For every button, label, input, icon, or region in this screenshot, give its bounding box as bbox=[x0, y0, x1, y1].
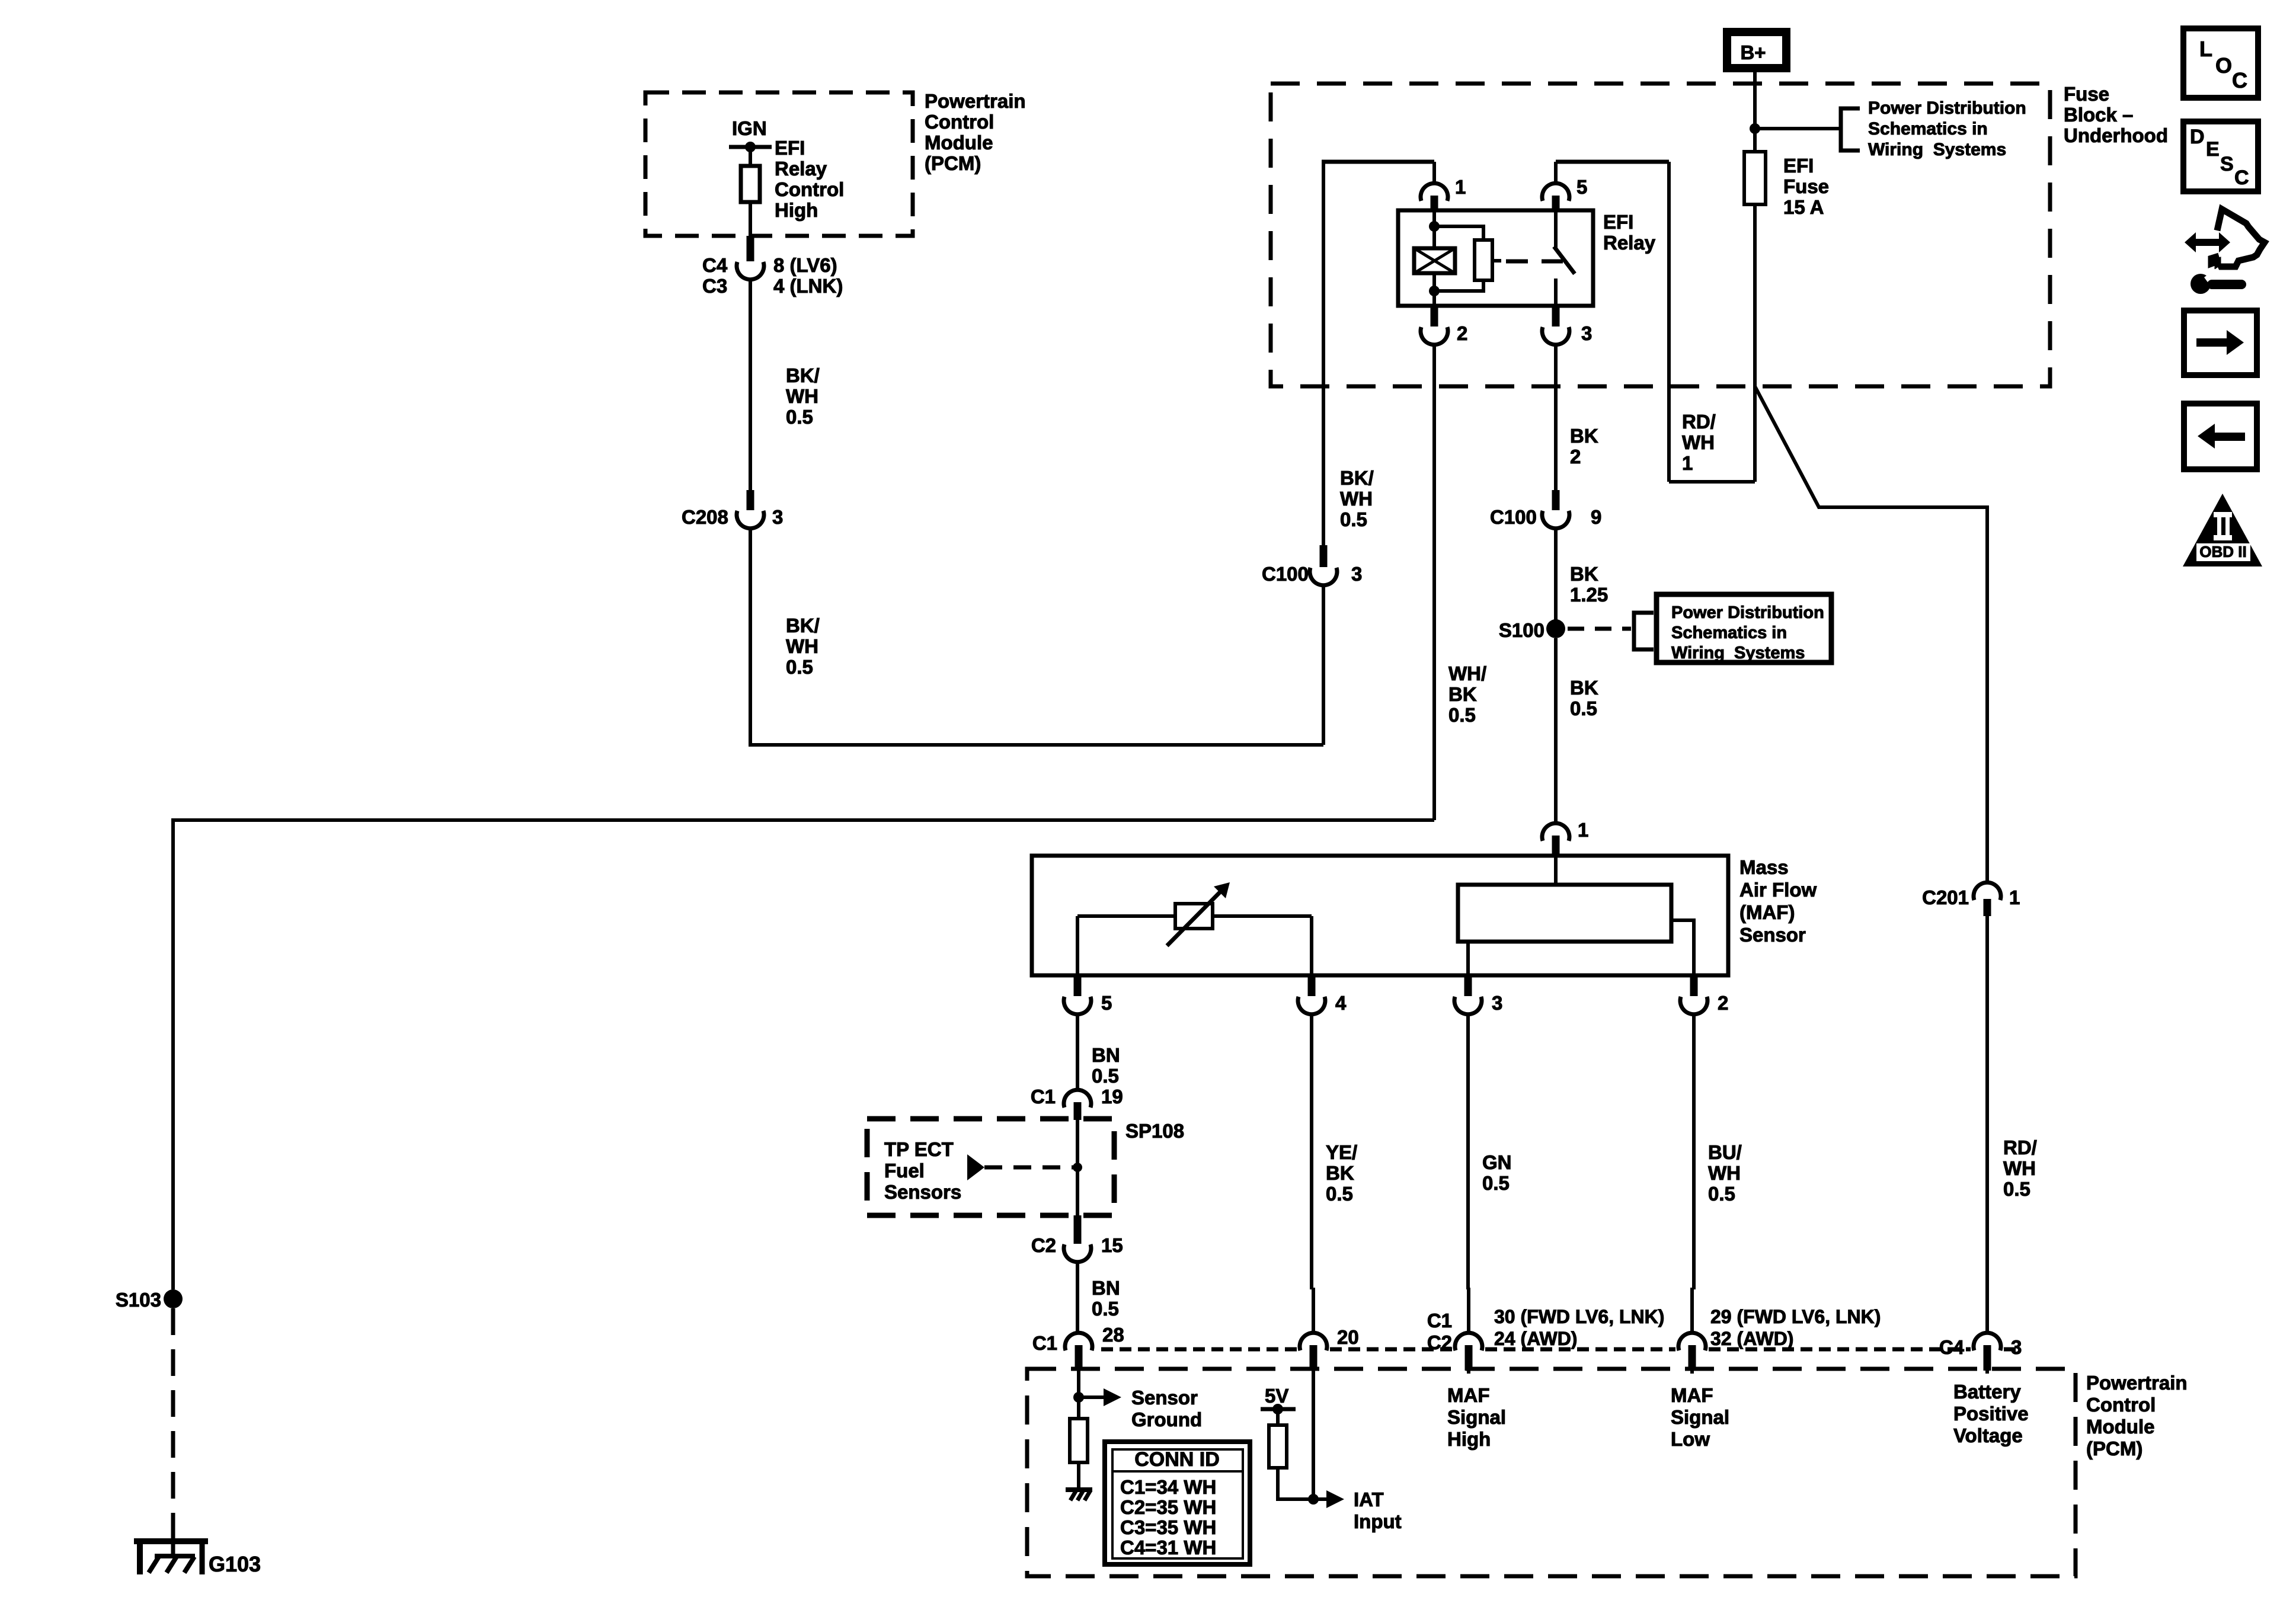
terminal B+ battery positive bbox=[1727, 32, 1786, 68]
wire B+ down to fuse bbox=[1753, 72, 1757, 152]
module box: TP ECT Fuel Sensors splice pack, dashed bbox=[867, 1119, 1114, 1215]
svg-text:BU/: BU/ bbox=[1708, 1141, 1742, 1163]
svg-text:Battery: Battery bbox=[1953, 1381, 2021, 1403]
resistor inside relay bbox=[1475, 240, 1492, 280]
wire riser from C100-3 up to top bus bbox=[1322, 162, 1325, 558]
wire through SP108 bbox=[1076, 1120, 1079, 1215]
connector C201 pin 1 bbox=[1974, 882, 2001, 900]
relay switch blade bbox=[1554, 210, 1558, 248]
connector MAF pin 3 bbox=[1464, 975, 1472, 996]
svg-text:Sensor: Sensor bbox=[1131, 1387, 1198, 1409]
wire diagonal RD/WH 0.5 to right column bbox=[1755, 386, 1987, 882]
svg-text:S100: S100 bbox=[1499, 619, 1544, 641]
svg-text:Fuel: Fuel bbox=[884, 1160, 925, 1182]
wire fuse down through box edge bbox=[1753, 204, 1757, 482]
svg-text:C3: C3 bbox=[702, 275, 727, 297]
svg-text:RD/: RD/ bbox=[2003, 1137, 2037, 1158]
svg-text:C1: C1 bbox=[1031, 1086, 1056, 1108]
svg-text:OBD II: OBD II bbox=[2199, 543, 2246, 561]
svg-text:30 (FWD LV6, LNK): 30 (FWD LV6, LNK) bbox=[1494, 1306, 1664, 1327]
svg-text:Module: Module bbox=[925, 132, 993, 153]
wire coil feed inside relay bbox=[1432, 210, 1436, 248]
svg-text:C3=35 WH: C3=35 WH bbox=[1120, 1516, 1216, 1538]
svg-text:3: 3 bbox=[1351, 563, 1362, 585]
svg-text:Underhood: Underhood bbox=[2064, 124, 2168, 146]
component box: Mass Air Flow (MAF) Sensor bbox=[1032, 856, 1728, 975]
svg-text:8 (LV6): 8 (LV6) bbox=[773, 254, 837, 276]
svg-text:C2=35 WH: C2=35 WH bbox=[1120, 1496, 1216, 1518]
wire branch to power distribution reference bbox=[1755, 127, 1841, 130]
svg-text:C1=34 WH: C1=34 WH bbox=[1120, 1476, 1216, 1498]
connector relay pin 5 bbox=[1554, 162, 1558, 183]
svg-text:High: High bbox=[775, 199, 818, 221]
svg-text:C1: C1 bbox=[1427, 1310, 1452, 1331]
connector row line bbox=[1330, 1347, 1452, 1352]
svg-text:BK: BK bbox=[1570, 425, 1598, 447]
reference bracket S100 bbox=[1634, 613, 1654, 649]
ground G103 symbol bbox=[134, 1538, 208, 1544]
svg-text:Low: Low bbox=[1671, 1428, 1710, 1450]
wire heater bottom to pin 3 bbox=[1466, 942, 1470, 975]
svg-text:BK/: BK/ bbox=[786, 364, 820, 386]
svg-text:Positive: Positive bbox=[1953, 1403, 2029, 1425]
svg-text:5V: 5V bbox=[1265, 1385, 1288, 1407]
wire sensor ground inside PCM bbox=[1077, 1371, 1080, 1419]
svg-text:C: C bbox=[2234, 167, 2249, 189]
icon forward arrow box bbox=[2184, 311, 2257, 375]
svg-text:WH: WH bbox=[786, 385, 818, 407]
svg-text:3: 3 bbox=[772, 506, 783, 528]
connector relay pin 3 bbox=[1552, 306, 1560, 327]
svg-text:Power Distribution: Power Distribution bbox=[1868, 98, 2026, 118]
svg-text:High: High bbox=[1447, 1428, 1491, 1450]
svg-text:BK/: BK/ bbox=[786, 614, 820, 636]
connector pin 29/32 bbox=[1678, 1333, 1706, 1350]
svg-text:0.5: 0.5 bbox=[1340, 508, 1367, 530]
svg-text:E: E bbox=[2206, 138, 2220, 161]
svg-text:0.5: 0.5 bbox=[786, 406, 813, 428]
wire coil parallel branch with resistor bbox=[1434, 226, 1483, 240]
connector C1 pin 28 bbox=[1065, 1333, 1092, 1350]
svg-text:G103: G103 bbox=[209, 1552, 261, 1576]
svg-text:0.5: 0.5 bbox=[1570, 697, 1597, 719]
junction dot B+ branch bbox=[1750, 123, 1760, 134]
connector relay pin 1 bbox=[1432, 162, 1436, 183]
variable resistor sensing element bbox=[1077, 914, 1312, 918]
svg-text:BN: BN bbox=[1092, 1277, 1120, 1299]
reference bracket power distribution bbox=[1841, 108, 1860, 151]
resistor: EFI Relay Control High driver bbox=[741, 166, 760, 202]
connector C4/C3 pin 8 (LV6) / 4 (LNK) bbox=[747, 236, 754, 261]
svg-text:Module: Module bbox=[2086, 1416, 2154, 1438]
svg-text:1: 1 bbox=[2009, 886, 2020, 908]
svg-text:WH: WH bbox=[1682, 431, 1715, 453]
icon OBD II triangle bbox=[2183, 494, 2262, 566]
wire pin1 to heater bbox=[1554, 856, 1558, 885]
svg-text:2: 2 bbox=[1457, 322, 1467, 344]
svg-text:BK: BK bbox=[1448, 683, 1477, 705]
svg-text:Schematics in: Schematics in bbox=[1868, 119, 1988, 139]
svg-text:0.5: 0.5 bbox=[1448, 704, 1476, 726]
svg-text:1: 1 bbox=[1578, 819, 1588, 841]
fuse EFI Fuse 15 A bbox=[1744, 152, 1766, 204]
splice S100 bbox=[1546, 619, 1565, 638]
connector row line bbox=[2004, 1347, 2019, 1352]
svg-text:IGN: IGN bbox=[732, 117, 767, 139]
svg-text:C2: C2 bbox=[1031, 1234, 1056, 1256]
dashed reference link from S100 bbox=[1568, 627, 1631, 631]
svg-text:Wiring Systems: Wiring Systems bbox=[1671, 644, 1805, 662]
svg-text:24 (AWD): 24 (AWD) bbox=[1494, 1328, 1577, 1349]
wire heater right to pin 2 bbox=[1671, 920, 1694, 975]
relay switch lower contact bbox=[1554, 279, 1558, 306]
svg-text:Sensor: Sensor bbox=[1739, 924, 1806, 946]
wire resistor tap tick bbox=[1492, 259, 1501, 263]
svg-text:L: L bbox=[2199, 37, 2212, 61]
dashed wire S103 to G103 bbox=[171, 1308, 175, 1538]
svg-text:Relay: Relay bbox=[775, 158, 827, 180]
svg-text:Powertrain: Powertrain bbox=[2086, 1372, 2188, 1394]
svg-text:C100: C100 bbox=[1490, 506, 1537, 528]
svg-text:1: 1 bbox=[1455, 176, 1466, 198]
svg-text:S: S bbox=[2220, 153, 2234, 175]
svg-text:C208: C208 bbox=[682, 506, 728, 528]
svg-text:2: 2 bbox=[1570, 446, 1581, 468]
svg-text:Mass: Mass bbox=[1739, 856, 1789, 878]
svg-text:CONN ID: CONN ID bbox=[1134, 1448, 1220, 1471]
icon LOC box bbox=[2183, 28, 2258, 98]
svg-text:0.5: 0.5 bbox=[1482, 1172, 1510, 1194]
svg-text:MAF: MAF bbox=[1671, 1384, 1713, 1406]
connector C1/C2 pin 30/24 bbox=[1455, 1333, 1482, 1350]
svg-text:Control: Control bbox=[2086, 1394, 2156, 1416]
wire RD/WH 0.5 C201 to C4-3 bbox=[1985, 916, 1989, 1333]
svg-text:C100: C100 bbox=[1262, 563, 1309, 585]
svg-text:0.5: 0.5 bbox=[1326, 1183, 1353, 1205]
relay coil (box with X) bbox=[1414, 248, 1455, 273]
svg-text:C: C bbox=[2232, 68, 2247, 92]
junction dot coil bottom bbox=[1429, 286, 1440, 296]
wire IGN to resistor bbox=[749, 147, 752, 166]
table CONN ID bbox=[1105, 1442, 1250, 1564]
heater element box inside MAF bbox=[1458, 885, 1671, 942]
svg-text:32 (AWD): 32 (AWD) bbox=[1710, 1328, 1793, 1349]
svg-text:WH: WH bbox=[786, 635, 818, 657]
svg-text:C4=31 WH: C4=31 WH bbox=[1120, 1537, 1216, 1558]
svg-text:1: 1 bbox=[1682, 452, 1693, 474]
svg-text:C2: C2 bbox=[1427, 1331, 1452, 1353]
svg-text:TP ECT: TP ECT bbox=[884, 1138, 954, 1160]
wire 5V to resistor bbox=[1276, 1409, 1280, 1425]
svg-text:Control: Control bbox=[925, 111, 994, 133]
connector C1 pin 19 bbox=[1064, 1090, 1091, 1108]
svg-text:WH: WH bbox=[1708, 1162, 1741, 1184]
svg-text:WH: WH bbox=[2003, 1157, 2036, 1179]
splice S103 bbox=[164, 1289, 183, 1308]
svg-text:S103: S103 bbox=[116, 1289, 161, 1311]
svg-text:Input: Input bbox=[1354, 1510, 1402, 1532]
svg-text:2: 2 bbox=[1718, 992, 1728, 1014]
junction dot coil top bbox=[1429, 221, 1440, 232]
wire long horizontal run to S103 bbox=[173, 820, 1434, 1289]
arrow IAT Input bbox=[1313, 1497, 1326, 1501]
svg-text:Signal: Signal bbox=[1447, 1406, 1506, 1428]
svg-text:BK: BK bbox=[1570, 677, 1598, 699]
svg-text:(MAF): (MAF) bbox=[1739, 901, 1795, 923]
svg-text:9: 9 bbox=[1591, 506, 1601, 528]
wire BK 2 from relay pin 3 bbox=[1554, 345, 1558, 491]
svg-text:O: O bbox=[2215, 53, 2232, 78]
connector C100 pin 3 bbox=[1320, 545, 1328, 567]
svg-text:B+: B+ bbox=[1740, 41, 1766, 63]
wire pin 20 down to IAT node bbox=[1312, 1371, 1315, 1499]
dashed actuation link to switch bbox=[1506, 260, 1563, 264]
svg-text:0.5: 0.5 bbox=[2003, 1178, 2030, 1200]
connector row line bbox=[1101, 1347, 1297, 1352]
svg-text:GN: GN bbox=[1482, 1151, 1512, 1173]
svg-text:Block –: Block – bbox=[2064, 104, 2133, 126]
wire BK 0.5 from S100 to MAF pin 1 bbox=[1554, 638, 1558, 823]
connector pin 20 bbox=[1300, 1333, 1327, 1350]
svg-text:C1: C1 bbox=[1032, 1332, 1057, 1354]
svg-text:C201: C201 bbox=[1922, 886, 1969, 908]
svg-text:5: 5 bbox=[1576, 176, 1587, 198]
svg-text:Signal: Signal bbox=[1671, 1406, 1729, 1428]
svg-text:D: D bbox=[2190, 126, 2205, 148]
svg-text:Air Flow: Air Flow bbox=[1739, 879, 1817, 901]
connector C4 pin 3 bbox=[1974, 1333, 2001, 1350]
module box: Powertrain Control Module (PCM) top-left, dashed bbox=[645, 92, 913, 236]
svg-text:YE/: YE/ bbox=[1326, 1141, 1357, 1163]
svg-text:BK/: BK/ bbox=[1340, 467, 1374, 489]
wire BN 0.5 pin5 to C1-19 bbox=[1076, 1014, 1079, 1090]
wire resistor to PCM edge bbox=[749, 202, 752, 236]
wire battery positive stub bbox=[1985, 1371, 1989, 1374]
icon back arrow box bbox=[2184, 404, 2257, 469]
svg-text:0.5: 0.5 bbox=[1092, 1065, 1119, 1087]
wire BN 0.5 C2-15 to C1-28 bbox=[1076, 1262, 1079, 1333]
svg-text:0.5: 0.5 bbox=[1092, 1298, 1119, 1320]
node 5V supply bar bbox=[1261, 1407, 1296, 1411]
svg-text:Powertrain: Powertrain bbox=[925, 90, 1026, 112]
svg-text:29 (FWD LV6, LNK): 29 (FWD LV6, LNK) bbox=[1710, 1306, 1881, 1327]
svg-text:19: 19 bbox=[1101, 1086, 1123, 1108]
svg-text:4: 4 bbox=[1335, 992, 1347, 1014]
node IGN: ignition feed bar and junction dot bbox=[729, 145, 772, 149]
connector MAF pin 5 bbox=[1074, 975, 1082, 996]
wire resistor to internal ground bbox=[1077, 1462, 1080, 1490]
svg-text:MAF: MAF bbox=[1447, 1384, 1489, 1406]
wire var-resistor left leg to pin 5 bbox=[1076, 916, 1079, 975]
svg-text:15: 15 bbox=[1101, 1234, 1123, 1256]
icon vehicle diagnostic with double arrow and wrench bbox=[2211, 209, 2265, 267]
module box: Fuse Block - Underhood, dashed bbox=[1271, 84, 2050, 386]
wire riser from horizontal run up to C100-3 bbox=[1322, 585, 1325, 745]
connector relay pin 2 bbox=[1431, 306, 1438, 327]
svg-text:0.5: 0.5 bbox=[786, 656, 813, 678]
wire BK/WH 0.5 from C4/C3 to C208 bbox=[749, 280, 752, 491]
svg-text:C4: C4 bbox=[1939, 1336, 1965, 1358]
connector row line bbox=[1709, 1347, 1971, 1352]
relay box: EFI Relay bbox=[1398, 210, 1593, 306]
svg-text:5: 5 bbox=[1101, 992, 1112, 1014]
svg-text:Power Distribution: Power Distribution bbox=[1671, 603, 1824, 622]
svg-text:(PCM): (PCM) bbox=[925, 152, 981, 174]
svg-text:Schematics in: Schematics in bbox=[1671, 623, 1787, 642]
svg-text:BK: BK bbox=[1326, 1162, 1354, 1184]
svg-text:Ground: Ground bbox=[1131, 1409, 1202, 1430]
splice dot SP108 bbox=[1073, 1163, 1082, 1172]
wire GN 0.5 MAF pin3 to C1/C2 bbox=[1466, 1014, 1470, 1289]
wire MAF signal low stub bbox=[1690, 1371, 1694, 1374]
svg-text:BN: BN bbox=[1092, 1044, 1120, 1066]
wire MAF signal high stub bbox=[1467, 1371, 1470, 1374]
svg-text:EFI: EFI bbox=[1603, 211, 1633, 233]
svg-text:4 (LNK): 4 (LNK) bbox=[773, 275, 843, 297]
svg-text:Fuse: Fuse bbox=[1783, 175, 1829, 197]
svg-text:Relay: Relay bbox=[1603, 232, 1656, 254]
reference box: Power Distribution Schematics in Wiring Systems bbox=[1657, 594, 1831, 662]
wire BU/WH 0.5 MAF pin2 to pin 29/32 bbox=[1692, 1014, 1696, 1289]
svg-text:EFI: EFI bbox=[775, 137, 805, 159]
wire resistor to IAT node bbox=[1278, 1468, 1313, 1499]
svg-text:Sensors: Sensors bbox=[884, 1181, 961, 1203]
svg-text:SP108: SP108 bbox=[1125, 1120, 1184, 1142]
svg-text:20: 20 bbox=[1337, 1326, 1359, 1348]
svg-text:WH: WH bbox=[1340, 488, 1373, 510]
svg-text:3: 3 bbox=[1581, 322, 1592, 344]
wire BK/WH 0.5 from C208 down and right to relay-control riser bbox=[750, 529, 1323, 745]
wire YE/BK 0.5 MAF pin4 to pin 20 bbox=[1310, 1014, 1313, 1289]
junction dot IAT bbox=[1308, 1494, 1319, 1505]
svg-text:WH/: WH/ bbox=[1448, 662, 1486, 684]
dashed link arrow to splice bbox=[984, 1166, 1074, 1170]
connector C2 pin 15 bbox=[1074, 1215, 1082, 1244]
svg-text:0.5: 0.5 bbox=[1708, 1183, 1735, 1205]
svg-text:IAT: IAT bbox=[1354, 1489, 1384, 1510]
svg-text:3: 3 bbox=[1492, 992, 1502, 1014]
arrow Sensor Ground bbox=[1079, 1395, 1104, 1399]
icon wrench bbox=[2191, 274, 2211, 294]
junction dot sensor ground bbox=[1073, 1392, 1084, 1403]
connector MAF pin 2 bbox=[1690, 975, 1698, 996]
wire top bus to relay pin 1 bbox=[1322, 160, 1434, 164]
arrow reference to TP ECT Fuel sensors bbox=[967, 1154, 984, 1180]
connector C208 pin 3 bbox=[747, 490, 754, 510]
connector row line bbox=[1485, 1347, 1675, 1352]
svg-text:Fuse: Fuse bbox=[2064, 83, 2109, 105]
resistor pull inside PCM bbox=[1070, 1419, 1088, 1462]
wire WH/BK 0.5 relay pin2 down bbox=[1432, 345, 1436, 820]
svg-text:BK: BK bbox=[1570, 563, 1598, 585]
connector MAF pin 4 bbox=[1308, 975, 1316, 996]
svg-text:C4: C4 bbox=[702, 254, 728, 276]
ground symbol internal bbox=[1066, 1487, 1092, 1492]
connector C100 pin 9 bbox=[1552, 490, 1560, 510]
icon DESC box bbox=[2183, 121, 2258, 191]
svg-text:Control: Control bbox=[775, 178, 844, 200]
wire BK 1.25 from C100-9 to S100 bbox=[1554, 529, 1558, 629]
svg-text:15 A: 15 A bbox=[1783, 196, 1824, 218]
wire var-resistor right leg to pin 4 bbox=[1310, 916, 1313, 975]
svg-text:1.25: 1.25 bbox=[1570, 584, 1608, 606]
svg-text:EFI: EFI bbox=[1783, 155, 1814, 177]
svg-text:Voltage: Voltage bbox=[1953, 1425, 2023, 1446]
svg-text:RD/: RD/ bbox=[1682, 411, 1716, 433]
svg-text:28: 28 bbox=[1102, 1324, 1124, 1346]
svg-text:Wiring Systems: Wiring Systems bbox=[1868, 140, 2006, 159]
module box: Powertrain Control Module (PCM) bottom, dashed bbox=[1027, 1369, 2076, 1576]
wire relay pin5 bus and RD/WH 1 loop bbox=[1556, 160, 1669, 164]
wire coil bottom bbox=[1432, 273, 1436, 306]
connector MAF pin 1 bbox=[1542, 823, 1569, 841]
resistor IAT pull-up bbox=[1269, 1425, 1287, 1468]
svg-text:(PCM): (PCM) bbox=[2086, 1438, 2142, 1459]
